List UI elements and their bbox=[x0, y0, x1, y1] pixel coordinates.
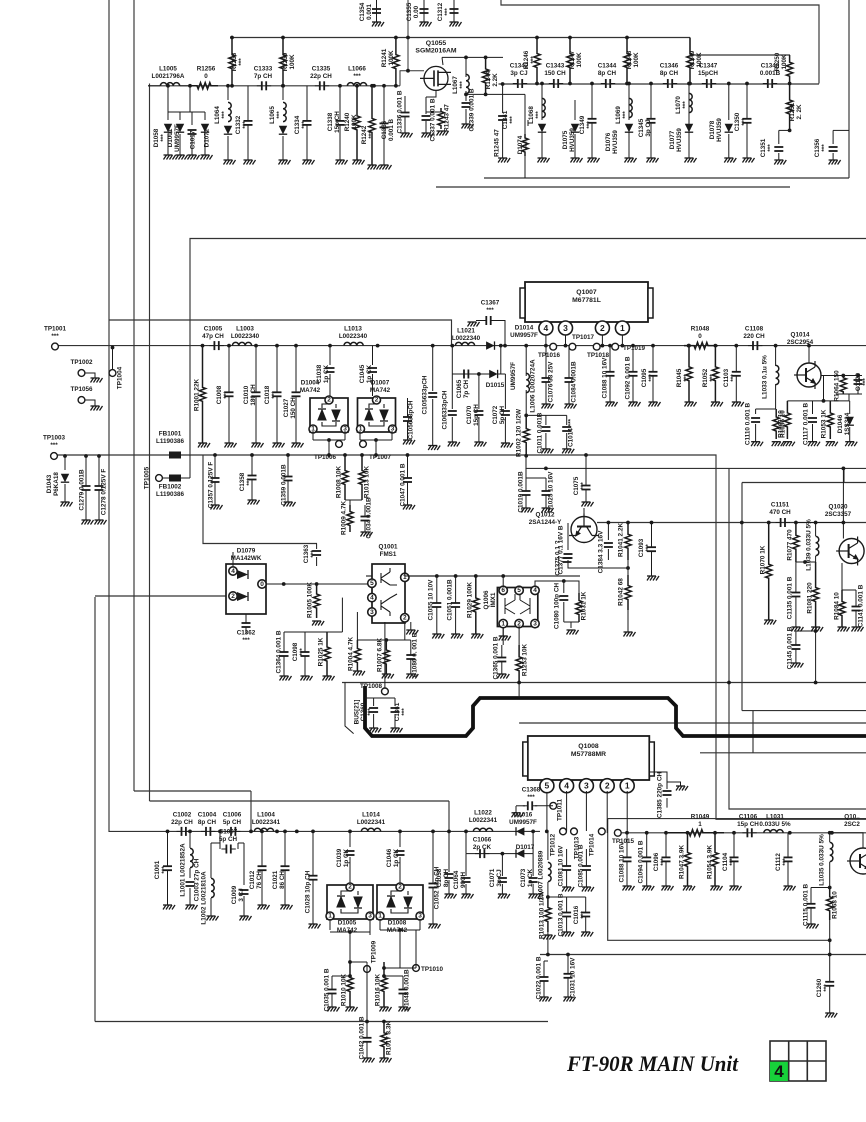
inductor L1004 bbox=[254, 828, 273, 831]
capacitor C1002 bbox=[177, 827, 191, 836]
capacitor C1094 bbox=[642, 857, 651, 861]
capacitor C1332 bbox=[244, 121, 253, 125]
svg-text:***: *** bbox=[401, 708, 408, 716]
capacitor C1357 bbox=[211, 478, 220, 482]
svg-text:0.001: 0.001 bbox=[366, 4, 373, 20]
svg-text:L1006 L0020724A: L1006 L0020724A bbox=[530, 359, 537, 413]
capacitor C1095 bbox=[649, 372, 658, 376]
capacitor C1066 bbox=[475, 849, 489, 858]
svg-text:***: *** bbox=[368, 131, 375, 139]
wire D1079 row y596 bbox=[95, 595, 233, 597]
svg-text:L0022341: L0022341 bbox=[469, 817, 498, 824]
svg-text:C1088 10 16V: C1088 10 16V bbox=[619, 841, 626, 883]
capacitor C1260 bbox=[825, 982, 834, 986]
test point TP1014 bbox=[598, 828, 605, 835]
capacitor C1339 bbox=[465, 94, 467, 101]
wire left vertical x149 bbox=[149, 84, 151, 802]
svg-text:***: *** bbox=[741, 118, 748, 126]
ferrite bead FB1001 bbox=[169, 452, 181, 459]
svg-text:***: *** bbox=[221, 111, 228, 119]
svg-text:Q1014: Q1014 bbox=[791, 332, 810, 339]
svg-text:D1017: D1017 bbox=[516, 844, 535, 851]
resistor R1242 bbox=[369, 86, 375, 165]
resistor R1008 bbox=[342, 455, 348, 500]
wire collector row y523 bbox=[597, 522, 866, 524]
pin 3 bbox=[579, 779, 593, 793]
svg-text:TP1003: TP1003 bbox=[43, 435, 66, 442]
ferrite bead FB1002 bbox=[169, 475, 181, 482]
svg-text:***: *** bbox=[622, 111, 629, 119]
svg-text:C1085 0.001 B: C1085 0.001 B bbox=[578, 844, 585, 887]
inductor L1068 bbox=[541, 84, 543, 121]
svg-text:FT-90R MAIN Unit: FT-90R MAIN Unit bbox=[566, 1051, 739, 1076]
wire top rail y37 bbox=[230, 37, 690, 39]
svg-text:UM9957F: UM9957F bbox=[510, 362, 517, 390]
capacitor C1070 bbox=[478, 374, 480, 409]
inductor L1006 L0020724A bbox=[525, 346, 527, 376]
svg-text:R1061 10: R1061 10 bbox=[778, 410, 785, 438]
capacitor C1014 bbox=[566, 415, 568, 425]
svg-text:3: 3 bbox=[563, 323, 568, 333]
wire top bus y84 right bbox=[499, 83, 820, 85]
capacitor C1335 bbox=[315, 81, 329, 90]
wire y178 lower top-section bbox=[484, 177, 849, 179]
svg-text:100K: 100K bbox=[388, 50, 395, 66]
svg-text:C1047 0.001 B: C1047 0.001 B bbox=[400, 463, 407, 506]
test point TP1056 bbox=[78, 397, 85, 404]
capacitor C1086 bbox=[406, 655, 415, 659]
resistor R1016 bbox=[381, 962, 387, 1007]
capacitor C1007 bbox=[221, 845, 235, 854]
capacitor C1085 bbox=[582, 866, 591, 870]
inductor L1035 bbox=[829, 833, 831, 842]
capacitor C1098 bbox=[301, 652, 310, 656]
svg-text:150 CH: 150 CH bbox=[544, 70, 566, 77]
inductor L1069 bbox=[628, 84, 630, 121]
svg-text:***: *** bbox=[223, 391, 230, 399]
capacitor C1056 bbox=[432, 346, 434, 391]
svg-text:***: *** bbox=[527, 794, 535, 801]
capacitor C1112 bbox=[784, 857, 793, 861]
inductor L1070 bbox=[688, 84, 690, 116]
capacitor C1039b bbox=[349, 831, 351, 847]
svg-text:D1008: D1008 bbox=[388, 920, 407, 927]
capacitor C1075 bbox=[582, 486, 591, 490]
svg-text:2: 2 bbox=[327, 397, 331, 404]
wire q1006 top bbox=[502, 576, 504, 586]
capacitor C1106 bbox=[742, 828, 756, 837]
svg-text:5: 5 bbox=[370, 580, 374, 587]
svg-text:R1041 2.2K: R1041 2.2K bbox=[618, 523, 625, 557]
svg-text:R1053 1K: R1053 1K bbox=[821, 409, 828, 438]
svg-text:C1006: C1006 bbox=[223, 812, 242, 819]
resistor R1061 bbox=[784, 401, 790, 439]
svg-text:C1013 0.001 B: C1013 0.001 B bbox=[558, 893, 565, 936]
svg-text:1SS314: 1SS314 bbox=[844, 412, 851, 435]
wire gate jog bbox=[400, 71, 424, 86]
pin 1 bbox=[615, 321, 629, 335]
svg-text:C1004: C1004 bbox=[198, 812, 217, 819]
svg-text:R1048: R1048 bbox=[691, 326, 710, 333]
capacitor C1385 bbox=[666, 798, 668, 808]
inductor L1013 bbox=[344, 342, 363, 345]
svg-text:3: 3 bbox=[370, 609, 374, 616]
resistor R1013 bbox=[545, 897, 551, 932]
svg-text:L0021796A: L0021796A bbox=[152, 73, 185, 80]
svg-text:8p CH: 8p CH bbox=[443, 868, 450, 887]
svg-text:FMS1: FMS1 bbox=[380, 551, 397, 558]
capacitor C1347 bbox=[702, 79, 716, 88]
resistor R1049 bbox=[668, 830, 724, 836]
wire stub top bbox=[407, 0, 409, 71]
capacitor C1017 bbox=[191, 112, 193, 125]
svg-text:***: *** bbox=[301, 121, 308, 129]
svg-text:180 CH: 180 CH bbox=[250, 384, 257, 406]
svg-text:C1385 220p CH: C1385 220p CH bbox=[657, 772, 664, 819]
capacitor C1362 bbox=[242, 623, 251, 627]
svg-text:8p CH: 8p CH bbox=[660, 70, 679, 77]
capacitor C1120 bbox=[857, 376, 859, 379]
svg-text:C1055 10 10V: C1055 10 10V bbox=[428, 579, 435, 621]
svg-text:C1002: C1002 bbox=[173, 812, 192, 819]
wire q1055 link y94 bbox=[466, 93, 525, 95]
resistor R1244 bbox=[482, 57, 488, 94]
svg-text:Q1012: Q1012 bbox=[536, 512, 555, 519]
svg-text:C1088 10 16V: C1088 10 16V bbox=[602, 357, 609, 399]
svg-text:4: 4 bbox=[564, 781, 569, 791]
svg-text:8p CH: 8p CH bbox=[198, 819, 217, 826]
svg-text:47p CH: 47p CH bbox=[202, 333, 224, 340]
svg-text:3 CJ: 3 CJ bbox=[238, 888, 245, 902]
resistor R1248 bbox=[624, 38, 630, 84]
svg-text:TP1004: TP1004 bbox=[117, 366, 124, 389]
svg-text:HVU359: HVU359 bbox=[716, 118, 723, 142]
capacitor C1027 bbox=[292, 392, 301, 396]
svg-text:C1066: C1066 bbox=[473, 837, 492, 844]
test point TP1012 bbox=[560, 828, 567, 835]
wire vertical x729 bbox=[729, 468, 866, 809]
svg-text:0: 0 bbox=[698, 333, 702, 340]
svg-text:C1086 0. 001 B: C1086 0. 001 B bbox=[412, 632, 419, 677]
capacitor C1088 bbox=[623, 857, 632, 861]
resistor R1053 bbox=[827, 401, 833, 439]
wire bottom bus TP row bbox=[618, 832, 866, 834]
wire y468 bbox=[526, 455, 866, 468]
svg-text:86 CH: 86 CH bbox=[279, 871, 286, 889]
pin 1 bbox=[620, 779, 634, 793]
svg-text:C1346: C1346 bbox=[660, 63, 679, 70]
wire big box top y238 bbox=[190, 239, 866, 456]
svg-text:100K: 100K bbox=[576, 52, 583, 68]
svg-text:***: *** bbox=[50, 442, 58, 449]
resistor R1246 bbox=[534, 38, 540, 84]
capacitor C1001 bbox=[163, 866, 172, 870]
capacitor C1081 bbox=[562, 866, 571, 870]
capacitor C1364 bbox=[280, 652, 289, 656]
svg-text:P6KA18: P6KA18 bbox=[53, 472, 60, 496]
svg-text:HVU359: HVU359 bbox=[612, 130, 619, 154]
svg-text:M57788MR: M57788MR bbox=[571, 751, 606, 758]
svg-text:C1092 0.001 B: C1092 0.001 B bbox=[625, 356, 632, 399]
capacitor C1048 bbox=[384, 975, 403, 977]
svg-text:100K: 100K bbox=[289, 54, 296, 70]
wire y723 long bbox=[519, 722, 866, 724]
capacitor C1115 bbox=[811, 887, 830, 889]
resistor R1056 bbox=[773, 409, 779, 439]
svg-text:C1011 0.001B: C1011 0.001B bbox=[537, 412, 544, 453]
svg-text:C1342: C1342 bbox=[510, 63, 529, 70]
svg-text:L1035 0.033U 5%: L1035 0.033U 5% bbox=[819, 834, 826, 886]
capacitor C1135 bbox=[791, 593, 800, 597]
svg-text:R1009 4.7K: R1009 4.7K bbox=[341, 501, 348, 535]
capacitor C1056 bbox=[403, 417, 412, 421]
svg-text:0: 0 bbox=[204, 73, 208, 80]
test point TP1015 bbox=[614, 829, 621, 836]
resistor R1041 bbox=[625, 523, 631, 561]
svg-text:L1003: L1003 bbox=[236, 326, 254, 333]
svg-text:C1005: C1005 bbox=[204, 326, 223, 333]
diode D1078 bbox=[728, 84, 730, 121]
svg-text:3p CJ: 3p CJ bbox=[496, 869, 503, 887]
diode D1008 MA742 bbox=[377, 885, 423, 919]
svg-text:2SC3357: 2SC3357 bbox=[825, 511, 852, 518]
svg-text:TP1012: TP1012 bbox=[550, 833, 557, 856]
svg-text:7p CH: 7p CH bbox=[463, 379, 470, 398]
svg-text:TP1016: TP1016 bbox=[538, 352, 561, 359]
capacitor C1145 bbox=[796, 630, 816, 632]
svg-text:D1007: D1007 bbox=[371, 380, 390, 387]
inductor L1007 bbox=[547, 831, 549, 860]
svg-text:C1115 0.001 B: C1115 0.001 B bbox=[803, 883, 810, 926]
svg-text:C105633pCH: C105633pCH bbox=[408, 400, 415, 439]
svg-text:***: *** bbox=[444, 8, 451, 16]
svg-text:***: *** bbox=[535, 111, 542, 119]
capacitor C1045 bbox=[372, 346, 374, 365]
capacitor C1011 bbox=[545, 415, 547, 425]
test point TP1008 bbox=[382, 688, 389, 695]
svg-text:C1335: C1335 bbox=[312, 66, 331, 73]
svg-text:100K: 100K bbox=[633, 52, 640, 68]
wire y753 long bbox=[752, 711, 754, 753]
svg-text:C1359 0.001B: C1359 0.001B bbox=[281, 464, 288, 506]
wire d1079 links bbox=[232, 552, 234, 566]
svg-text:R1042 68: R1042 68 bbox=[618, 578, 625, 606]
resistor R1001 bbox=[199, 346, 205, 443]
svg-text:R1253 10K: R1253 10K bbox=[522, 643, 529, 676]
pin 2 bbox=[595, 321, 609, 335]
wire q1020 base bbox=[796, 522, 844, 524]
resistor R1251 bbox=[786, 84, 792, 131]
transistor Q1012 bbox=[569, 514, 599, 543]
inductor L1022 bbox=[473, 828, 492, 831]
inductor L1067 bbox=[465, 57, 467, 77]
svg-text:C1145 0.001 B: C1145 0.001 B bbox=[787, 626, 794, 669]
svg-text:4: 4 bbox=[533, 587, 537, 594]
svg-text:150 CH: 150 CH bbox=[290, 397, 297, 419]
svg-text:4: 4 bbox=[774, 1062, 784, 1081]
svg-text:C1344: C1344 bbox=[598, 63, 617, 70]
svg-text:C1076 33 25V: C1076 33 25V bbox=[548, 361, 555, 403]
svg-text:2.2K: 2.2K bbox=[492, 73, 499, 87]
capacitor C1065b bbox=[459, 370, 473, 379]
svg-text:R1063 10: R1063 10 bbox=[832, 891, 839, 919]
wire bus box bbox=[345, 683, 354, 734]
svg-text:C1080 100p CH: C1080 100p CH bbox=[554, 583, 561, 630]
wire bottom bus y832 bbox=[109, 830, 540, 832]
wire r1002 row bbox=[526, 414, 567, 416]
resistor R1029 bbox=[473, 576, 479, 634]
svg-text:2: 2 bbox=[605, 781, 610, 791]
svg-text:***: *** bbox=[709, 374, 716, 382]
inductor L1002 bbox=[210, 843, 212, 878]
svg-text:76 CH: 76 CH bbox=[256, 871, 263, 889]
svg-text:L1022: L1022 bbox=[474, 810, 492, 817]
svg-text:R1049: R1049 bbox=[691, 814, 710, 821]
svg-text:***: *** bbox=[310, 550, 317, 558]
wire diode cluster top bbox=[168, 111, 205, 113]
capacitor C1377 bbox=[567, 523, 569, 550]
wire y320 row bbox=[109, 320, 452, 346]
svg-text:TP1005: TP1005 bbox=[144, 466, 151, 489]
svg-text:Q1001: Q1001 bbox=[379, 544, 398, 551]
svg-text:MA742: MA742 bbox=[370, 387, 391, 394]
capacitor C1064 bbox=[465, 854, 467, 876]
svg-text:D1004: D1004 bbox=[301, 380, 320, 387]
svg-text:TP1007: TP1007 bbox=[369, 454, 392, 461]
svg-text:8p CH: 8p CH bbox=[598, 70, 617, 77]
inductor L1033 bbox=[775, 346, 777, 366]
svg-text:L0022341: L0022341 bbox=[252, 819, 281, 826]
capacitor C1141 bbox=[852, 607, 861, 611]
svg-text:R1004 4.7K: R1004 4.7K bbox=[348, 637, 355, 671]
svg-text:1p CK: 1p CK bbox=[323, 364, 330, 383]
svg-text:HVU359: HVU359 bbox=[569, 128, 576, 152]
svg-text:0: 0 bbox=[260, 581, 264, 588]
svg-text:M67781L: M67781L bbox=[572, 297, 601, 304]
capacitor C1345 bbox=[647, 119, 656, 123]
svg-text:***: *** bbox=[660, 858, 667, 866]
svg-text:0.001 B: 0.001 B bbox=[388, 119, 395, 142]
diode D1017 bbox=[516, 849, 524, 857]
test point TP1006 bbox=[312, 431, 314, 440]
svg-text:Q1007: Q1007 bbox=[576, 289, 597, 296]
svg-text:***: *** bbox=[459, 81, 466, 89]
svg-text:R1013 100 1/2W: R1013 100 1/2W bbox=[539, 890, 546, 939]
capacitor C1005 bbox=[209, 341, 223, 350]
svg-text:2: 2 bbox=[600, 323, 605, 333]
capacitor C1355b bbox=[833, 129, 849, 131]
svg-text:IMX1: IMX1 bbox=[490, 592, 497, 607]
svg-text:1: 1 bbox=[698, 821, 702, 828]
svg-text:R1029 100K: R1029 100K bbox=[467, 582, 474, 618]
capacitor C1361 bbox=[394, 698, 396, 706]
capacitor C1031 bbox=[564, 974, 573, 978]
resistor R1054 bbox=[712, 833, 718, 886]
svg-text:3p CJ: 3p CJ bbox=[645, 119, 652, 137]
inductor L1031 bbox=[764, 830, 783, 833]
svg-text:R1016 10K: R1016 10K bbox=[375, 973, 382, 1006]
svg-text:***: *** bbox=[238, 58, 245, 66]
resistor R1004 bbox=[354, 640, 360, 671]
svg-text:Q10..: Q10.. bbox=[844, 814, 860, 821]
resistor R1010 bbox=[347, 962, 353, 1007]
capacitor C1063 bbox=[451, 374, 453, 409]
svg-text:R1013 10K: R1013 10K bbox=[364, 465, 371, 498]
svg-text:15p CH: 15p CH bbox=[334, 111, 341, 133]
capacitor C1312 bbox=[453, 0, 455, 22]
svg-text:1: 1 bbox=[328, 913, 332, 920]
svg-text:C105633pCH: C105633pCH bbox=[422, 375, 429, 414]
diode D1043 zener bbox=[64, 456, 66, 470]
bus thick line BUS[21] bbox=[365, 686, 866, 736]
svg-text:L1190386: L1190386 bbox=[156, 491, 185, 498]
resistor R1025 bbox=[324, 632, 330, 676]
resistor R1241 bbox=[393, 38, 399, 86]
capacitor C1349 bbox=[588, 119, 597, 123]
capacitor C1344 bbox=[601, 79, 615, 88]
capacitor C1021 bbox=[281, 866, 290, 870]
svg-text:FB1001: FB1001 bbox=[159, 431, 182, 438]
capacitor C1350 bbox=[743, 119, 752, 123]
wire emitter rail bbox=[787, 400, 849, 402]
diode D1005 MA742 bbox=[327, 885, 373, 919]
capacitor C1088b bbox=[606, 372, 615, 376]
svg-text:R1001 22K: R1001 22K bbox=[194, 378, 201, 411]
svg-text:2: 2 bbox=[231, 593, 235, 600]
capacitor C1012 bbox=[258, 866, 267, 870]
capacitor C1104 bbox=[730, 857, 739, 861]
diode D1014 bbox=[486, 341, 494, 349]
svg-text:C1028 10p CH: C1028 10p CH bbox=[305, 870, 312, 913]
svg-text:R1007 6.8K: R1007 6.8K bbox=[377, 638, 384, 672]
resistor R1009 bbox=[347, 505, 353, 532]
capacitor C1360 bbox=[373, 698, 375, 706]
wire pins down bbox=[566, 791, 568, 831]
svg-text:2: 2 bbox=[348, 884, 352, 891]
inductor L1064 bbox=[227, 86, 229, 100]
svg-text:C1365 0.001 B: C1365 0.001 B bbox=[493, 636, 500, 679]
capacitor C1096 bbox=[662, 857, 671, 861]
svg-text:TP1011: TP1011 bbox=[557, 799, 564, 821]
test point TP1019 bbox=[612, 343, 619, 350]
capacitor C1046 bbox=[399, 831, 401, 847]
svg-text:***: *** bbox=[242, 121, 249, 129]
svg-text:L1001 L0021852A: L1001 L0021852A bbox=[180, 843, 187, 897]
diode D1058 bbox=[167, 86, 169, 120]
svg-text:C1135 0.001 B: C1135 0.001 B bbox=[787, 576, 794, 619]
resistor R1063 bbox=[827, 888, 833, 921]
pin 4 bbox=[560, 779, 574, 793]
svg-text:TP1002: TP1002 bbox=[70, 359, 93, 366]
capacitor C1348 bbox=[763, 79, 777, 88]
test point TP1009 bbox=[364, 966, 371, 973]
resistor R1007 bbox=[383, 640, 389, 674]
wire d1015 row bbox=[451, 346, 453, 374]
svg-text:R1081 220: R1081 220 bbox=[807, 582, 814, 614]
resistor R1048 bbox=[684, 342, 718, 348]
resistor R1070 bbox=[766, 523, 772, 621]
svg-text:***: *** bbox=[782, 858, 789, 866]
capacitor C1092 bbox=[629, 372, 638, 376]
test point TP1013 bbox=[571, 828, 578, 835]
svg-text:***: *** bbox=[353, 73, 361, 80]
wire q1001 top bbox=[405, 572, 437, 576]
svg-text:TP1001: TP1001 bbox=[44, 326, 67, 333]
capacitor C1010 bbox=[252, 392, 261, 396]
svg-text:C1042 0.001 B: C1042 0.001 B bbox=[359, 1016, 366, 1059]
test point TP1005 bbox=[156, 475, 163, 482]
IC Q1008 M57788MR bbox=[528, 736, 650, 780]
